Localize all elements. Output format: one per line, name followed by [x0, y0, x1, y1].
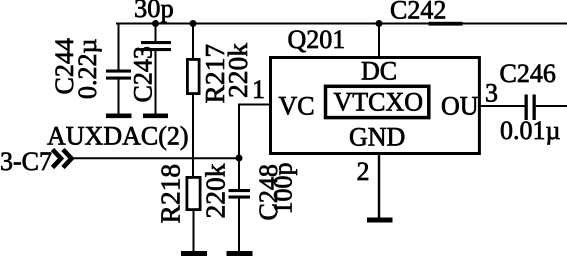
svg-text:0.01µ: 0.01µ — [500, 116, 561, 145]
svg-text:3: 3 — [485, 79, 498, 108]
wire R218 bottom lead — [193, 209, 195, 252]
capacitor C242 chip bar — [429, 22, 463, 26]
capacitor C246 — [525, 95, 567, 121]
svg-text:C242: C242 — [390, 0, 446, 25]
svg-text:R218: R218 — [155, 164, 186, 224]
wire to pin 1 — [239, 105, 270, 159]
capacitor C244 — [106, 70, 131, 115]
wire DC pin — [378, 24, 380, 58]
resistor R217 — [187, 59, 199, 93]
svg-text:C243: C243 — [129, 46, 158, 102]
wire C244 branch vertical — [118, 24, 120, 71]
svg-text:AUXDAC(2): AUXDAC(2) — [47, 122, 189, 151]
svg-text:OU: OU — [441, 92, 479, 121]
wire R217 bottom to R218 — [192, 95, 194, 177]
ground C244 — [106, 114, 132, 119]
wire top horizontal net — [116, 23, 567, 25]
svg-text:1: 1 — [252, 75, 265, 104]
node dot C243 — [152, 20, 159, 27]
svg-text:2: 2 — [357, 157, 370, 186]
wire pin 2 — [378, 155, 380, 219]
svg-text:GND: GND — [349, 123, 405, 152]
svg-text:0.22µ: 0.22µ — [73, 39, 102, 100]
wire C248 top lead — [238, 158, 240, 190]
ground R218 — [181, 251, 207, 256]
ground C248 — [227, 251, 253, 256]
svg-text:VC: VC — [279, 92, 315, 121]
svg-text:DC: DC — [361, 57, 397, 86]
ground C243 — [143, 114, 168, 119]
wire OU pin to C246 — [480, 105, 525, 107]
inner box VTCXO — [326, 86, 429, 117]
svg-text:220k: 220k — [200, 163, 231, 218]
node dot VC net — [236, 155, 243, 162]
node dot R217 — [190, 20, 197, 27]
svg-text:3-C7: 3-C7 — [0, 147, 52, 176]
svg-text:Q201: Q201 — [288, 25, 346, 54]
ground pin 2 — [367, 218, 393, 223]
svg-text:220k: 220k — [222, 43, 253, 98]
capacitor C248 — [229, 189, 251, 252]
svg-text:C246: C246 — [500, 59, 556, 88]
node dot DC — [376, 20, 383, 27]
svg-text:100p: 100p — [269, 163, 298, 215]
wire AUXDAC net — [73, 157, 239, 159]
wire R217 top lead — [192, 24, 194, 60]
op module Q201 box — [271, 58, 480, 154]
wire C243 branch — [155, 24, 157, 42]
capacitor C243 — [141, 41, 171, 114]
svg-text:VTCXO: VTCXO — [334, 88, 424, 117]
connector chevron 3-C7 — [53, 150, 72, 168]
svg-text:30p: 30p — [134, 0, 174, 23]
resistor R218 — [187, 177, 200, 209]
